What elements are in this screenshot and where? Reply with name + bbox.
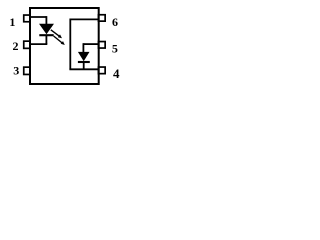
wire photodiode anode vertical (82, 43, 84, 53)
wire LED cathode to pin2 (30, 43, 47, 45)
wire photodiode cathode vertical (83, 62, 85, 70)
package outline U1 (30, 8, 99, 84)
wire LED anode vertical (45, 16, 47, 24)
photodiode D2 triangle (79, 52, 89, 60)
svg-text:4: 4 (113, 66, 120, 81)
wire bottom to pin4 (69, 68, 98, 70)
pin 2 box (24, 41, 30, 48)
svg-text:3: 3 (13, 63, 19, 77)
pin 6 box (98, 15, 105, 21)
wire pin5 horizontal (83, 43, 98, 45)
light arrow 1 (51, 30, 62, 38)
svg-text:2: 2 (13, 39, 19, 53)
svg-text:1: 1 (9, 15, 15, 29)
wire LED cathode vertical (45, 35, 47, 44)
pin 1 box (24, 15, 30, 22)
light arrow 2 (54, 36, 65, 45)
LED D1 triangle (40, 24, 53, 33)
wire pin1 to LED anode (30, 16, 46, 18)
pin 4 box (98, 67, 105, 74)
svg-text:6: 6 (112, 15, 118, 29)
svg-text:5: 5 (112, 41, 118, 55)
wire detector left vertical (69, 19, 71, 70)
pin 5 box (98, 42, 105, 49)
LED D1 cathode bar (39, 34, 53, 36)
photodiode D2 cathode bar (78, 61, 90, 63)
wire pin6 horizontal (70, 18, 98, 20)
pin 3 box (24, 67, 30, 74)
